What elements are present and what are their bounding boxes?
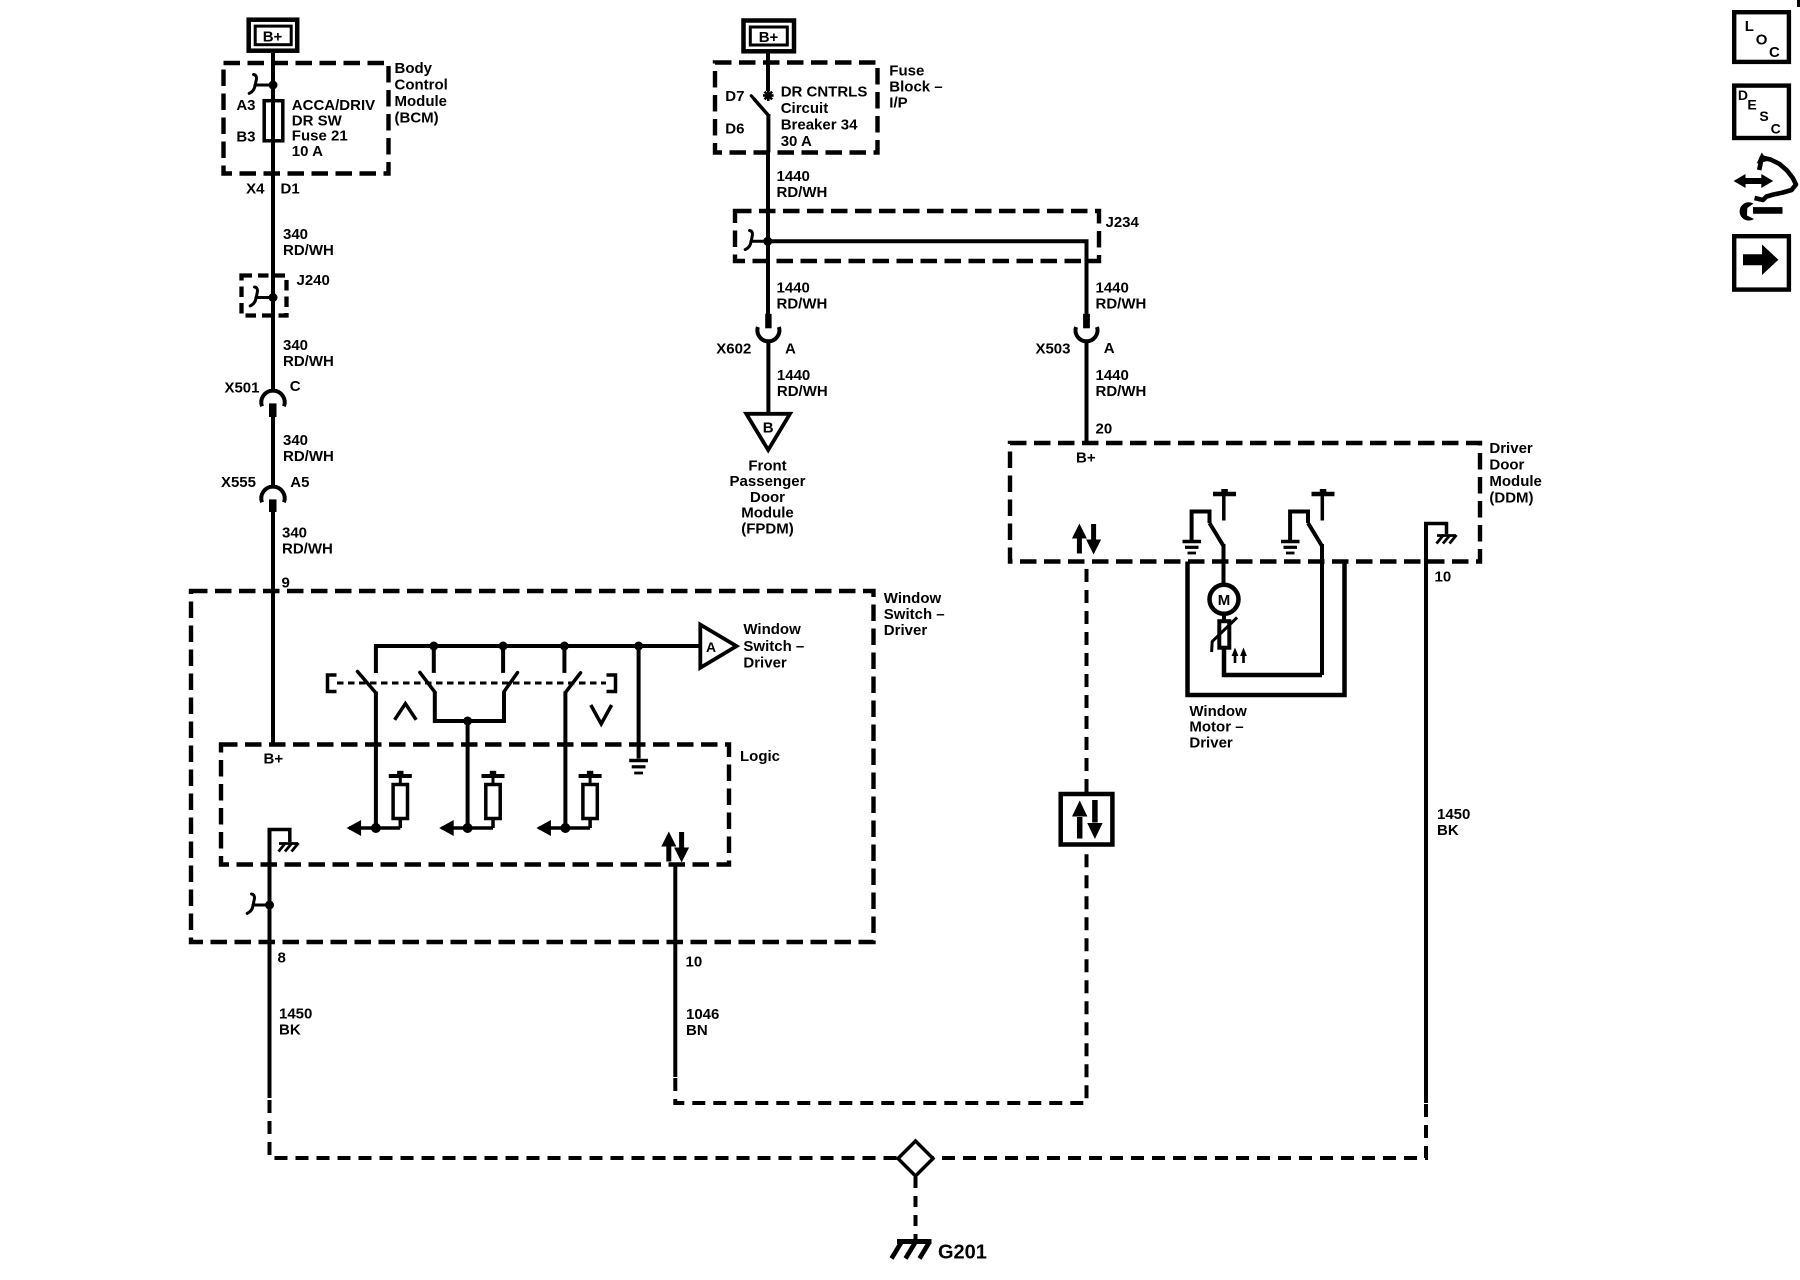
svg-text:C: C (1771, 120, 1781, 136)
relay contact 1 fixed T terminal (1213, 489, 1236, 521)
svg-text:B+: B+ (1076, 450, 1096, 467)
up/down arrows in DDM (1072, 524, 1101, 555)
ground G201 (892, 1242, 932, 1259)
svg-text:(BCM): (BCM) (395, 109, 439, 126)
svg-text:RD/WH: RD/WH (1096, 383, 1147, 400)
outer motor harness U wire (1188, 562, 1345, 696)
wire J234 down left branch (766, 241, 770, 316)
signal arrow 3 (539, 826, 590, 830)
signal arrow 1 (349, 826, 400, 830)
svg-text:RD/WH: RD/WH (283, 242, 334, 259)
svg-text:B+: B+ (759, 29, 779, 46)
wire X555 to window switch (271, 512, 275, 593)
svg-text:Door: Door (1489, 457, 1524, 474)
dashed path up to DDM (1085, 563, 1089, 792)
actuator bracket right (607, 675, 616, 692)
earth ground (bus) (629, 761, 648, 774)
svg-text:Motor –: Motor – (1189, 719, 1243, 736)
svg-text:Module: Module (1489, 473, 1542, 490)
splice J240 dashed box (242, 276, 287, 316)
relay contact 2 arm and ground leg (1290, 512, 1308, 541)
earth ground (contact 1) (1183, 542, 1202, 554)
svg-text:1440: 1440 (777, 367, 810, 384)
ground branch wire (637, 646, 641, 759)
logic internal ground elbow (268, 830, 290, 906)
svg-text:BK: BK (1437, 822, 1459, 839)
up/down control box on dashed path (1061, 794, 1113, 845)
motor bottom wire loop (1224, 648, 1322, 675)
svg-text:Window: Window (1189, 703, 1247, 720)
thermistor arrows (1232, 648, 1247, 664)
corner mark (1797, 0, 1800, 7)
svg-text:10 A: 10 A (292, 143, 323, 160)
Window Switch Driver dashed box (191, 591, 874, 942)
svg-text:D6: D6 (725, 121, 744, 138)
svg-text:B3: B3 (236, 128, 255, 145)
svg-text:X602: X602 (716, 341, 751, 358)
svg-text:(DDM): (DDM) (1489, 489, 1533, 506)
svg-text:DR CNTRLS: DR CNTRLS (781, 84, 868, 101)
splice J234 dashed box (735, 211, 1099, 261)
node dots on bus (429, 642, 438, 651)
signal arrow 2 (442, 826, 493, 830)
svg-text:Driver: Driver (1489, 440, 1533, 457)
svg-text:340: 340 (283, 432, 308, 449)
svg-text:Block –: Block – (889, 79, 942, 96)
LOC icon box (1734, 12, 1789, 62)
schematic navigation icon (1734, 153, 1796, 221)
svg-text:30 A: 30 A (781, 133, 812, 150)
thermistor (motor protector) (1219, 621, 1229, 648)
Body Control Module (BCM) dashed box (224, 63, 389, 174)
svg-text:Circuit: Circuit (781, 100, 829, 117)
wire through J240 (271, 275, 275, 320)
svg-text:340: 340 (283, 226, 308, 243)
B+ power symbol (middle) (744, 21, 795, 52)
DESC icon box (1734, 86, 1789, 138)
up chevron (395, 704, 417, 720)
connector X503 pin A (1083, 314, 1090, 329)
svg-text:B+: B+ (264, 751, 284, 768)
resistor R2 (482, 771, 505, 828)
mid output wire (466, 721, 470, 828)
svg-text:A3: A3 (236, 97, 255, 114)
down chevron (591, 705, 612, 724)
dashed stub to G201 (914, 1177, 918, 1240)
svg-text:Passenger: Passenger (730, 473, 806, 490)
switch arm 2 (420, 672, 435, 692)
relay contact 1 arm and ground leg (1192, 512, 1210, 541)
wire X602 to FPDM (766, 342, 770, 414)
svg-text:G201: G201 (938, 1242, 987, 1264)
connector X555 pin A5 (261, 487, 284, 503)
connector X501 pin C (261, 391, 284, 407)
contact 1 output wire to motor (1222, 544, 1226, 584)
switch contact stubs (434, 646, 565, 673)
actuator dashed link (337, 682, 606, 685)
svg-text:C: C (290, 378, 301, 395)
svg-text:1046: 1046 (686, 1006, 719, 1023)
svg-text:RD/WH: RD/WH (1096, 295, 1147, 312)
svg-text:Driver: Driver (743, 655, 787, 672)
svg-text:I/P: I/P (889, 95, 907, 112)
svg-text:RD/WH: RD/WH (282, 540, 333, 557)
svg-text:X555: X555 (221, 474, 256, 491)
wire B+ to BCM (271, 53, 275, 66)
svg-text:B: B (763, 420, 774, 437)
dashed ground path (right) (934, 1104, 1427, 1158)
svg-text:RD/WH: RD/WH (283, 353, 334, 370)
Driver Door Module dashed box (1010, 443, 1480, 562)
svg-text:10: 10 (1435, 569, 1452, 586)
svg-text:RD/WH: RD/WH (777, 295, 828, 312)
svg-text:D1: D1 (281, 181, 300, 198)
svg-text:Logic: Logic (740, 748, 780, 765)
wire X503 to DDM (1085, 342, 1089, 443)
svg-text:1440: 1440 (777, 280, 810, 297)
wire pin 9 into switch (271, 591, 275, 745)
clip tap symbol in BCM (249, 75, 272, 94)
switch arm 4 (566, 673, 581, 693)
svg-text:A: A (1104, 340, 1115, 357)
svg-text:Window: Window (884, 590, 942, 607)
switch 2+3 U link wire (435, 692, 504, 722)
chassis ground hatch (DDM) (1437, 535, 1457, 544)
svg-text:J234: J234 (1106, 214, 1140, 231)
wire inside BCM (271, 63, 275, 174)
wire BCM to J240 (271, 174, 275, 276)
splice diamond (898, 1141, 933, 1176)
Logic dashed box (221, 745, 729, 865)
svg-text:O: O (1756, 32, 1768, 49)
svg-text:1450: 1450 (1437, 806, 1470, 823)
svg-text:1440: 1440 (1096, 367, 1129, 384)
svg-text:Door: Door (750, 489, 785, 506)
svg-text:Module: Module (741, 505, 794, 522)
svg-text:Switch –: Switch – (743, 638, 804, 655)
switch 4 output wire (563, 692, 567, 829)
chassis ground hatch (logic) (279, 843, 299, 852)
svg-text:1440: 1440 (1096, 280, 1129, 297)
svg-text:S: S (1759, 108, 1768, 124)
resistor R1 (389, 771, 412, 828)
wire J240 to X501 (271, 320, 275, 391)
fuse 21 rectangle (264, 101, 283, 141)
circuit breaker 34 symbol (763, 90, 774, 101)
svg-text:Control: Control (395, 76, 448, 93)
clip tap symbol at pin 8 wire (247, 894, 268, 913)
svg-text:L: L (1745, 18, 1754, 35)
signal bus wire (376, 646, 700, 673)
svg-text:BK: BK (279, 1022, 301, 1039)
arrow icon box (1734, 236, 1789, 289)
wire pin 8 down (268, 905, 272, 1098)
svg-text:M: M (1218, 592, 1231, 609)
clip tap symbol in J234 (745, 231, 766, 250)
off-page triangle B to FPDM (746, 414, 790, 450)
wire X501 to X555 (271, 417, 275, 486)
svg-text:Fuse: Fuse (889, 63, 924, 80)
svg-text:Body: Body (395, 60, 433, 77)
svg-text:X501: X501 (224, 379, 259, 396)
Fuse Block I/P dashed box (715, 63, 878, 153)
wire fuse block to J234 (766, 153, 770, 242)
svg-text:1450: 1450 (279, 1006, 312, 1023)
switch 1 output wire (374, 692, 378, 829)
up/down arrows in Logic (661, 832, 689, 863)
node on U link (463, 717, 472, 726)
svg-text:Switch –: Switch – (884, 606, 945, 623)
svg-text:X503: X503 (1035, 341, 1070, 358)
relay contact 2 fixed T terminal (1312, 489, 1335, 521)
svg-text:D7: D7 (725, 88, 744, 105)
wire pin 10 down (673, 863, 677, 1077)
svg-text:Breaker 34: Breaker 34 (781, 117, 858, 134)
dashed ground path (left) (270, 1100, 898, 1158)
svg-text:A5: A5 (290, 474, 309, 491)
clip tap symbol in J240 (250, 287, 272, 306)
svg-text:8: 8 (278, 950, 286, 967)
svg-text:1440: 1440 (777, 168, 810, 185)
svg-text:340: 340 (282, 524, 307, 541)
svg-text:340: 340 (283, 337, 308, 354)
svg-text:RD/WH: RD/WH (283, 448, 334, 465)
resistor R3 (579, 771, 602, 828)
actuator bracket left (328, 675, 337, 692)
switch arm 1 (358, 672, 376, 693)
switch arm 3 (504, 673, 518, 692)
svg-text:C: C (1769, 44, 1780, 61)
svg-text:(FPDM): (FPDM) (741, 520, 794, 537)
svg-text:Front: Front (748, 458, 786, 475)
svg-text:RD/WH: RD/WH (777, 383, 828, 400)
svg-text:B+: B+ (263, 28, 283, 45)
svg-text:10: 10 (686, 954, 703, 971)
svg-text:Driver: Driver (1189, 734, 1233, 751)
svg-text:BN: BN (686, 1022, 708, 1039)
contact 2 output wire (1320, 544, 1324, 675)
dashed motor control path (675, 847, 1086, 1104)
svg-text:Window: Window (743, 621, 801, 638)
B+ power symbol (left) (249, 20, 298, 51)
svg-text:A: A (706, 639, 716, 655)
svg-text:X4: X4 (246, 181, 265, 198)
earth ground (contact 2) (1281, 542, 1300, 554)
svg-text:A: A (785, 341, 796, 358)
wire B+ to fuse block (766, 53, 770, 91)
DDM ground elbow pin 10 (1424, 524, 1447, 1104)
svg-text:J240: J240 (297, 272, 330, 289)
svg-text:Driver: Driver (884, 622, 928, 639)
svg-text:E: E (1747, 96, 1756, 112)
svg-text:20: 20 (1096, 421, 1113, 438)
connector X602 pin A (765, 314, 771, 329)
svg-text:RD/WH: RD/WH (777, 184, 828, 201)
wire J234 branch to right (768, 241, 1087, 316)
window motor M (1210, 585, 1239, 614)
svg-text:Module: Module (395, 93, 448, 110)
off-page triangle A (700, 625, 736, 668)
